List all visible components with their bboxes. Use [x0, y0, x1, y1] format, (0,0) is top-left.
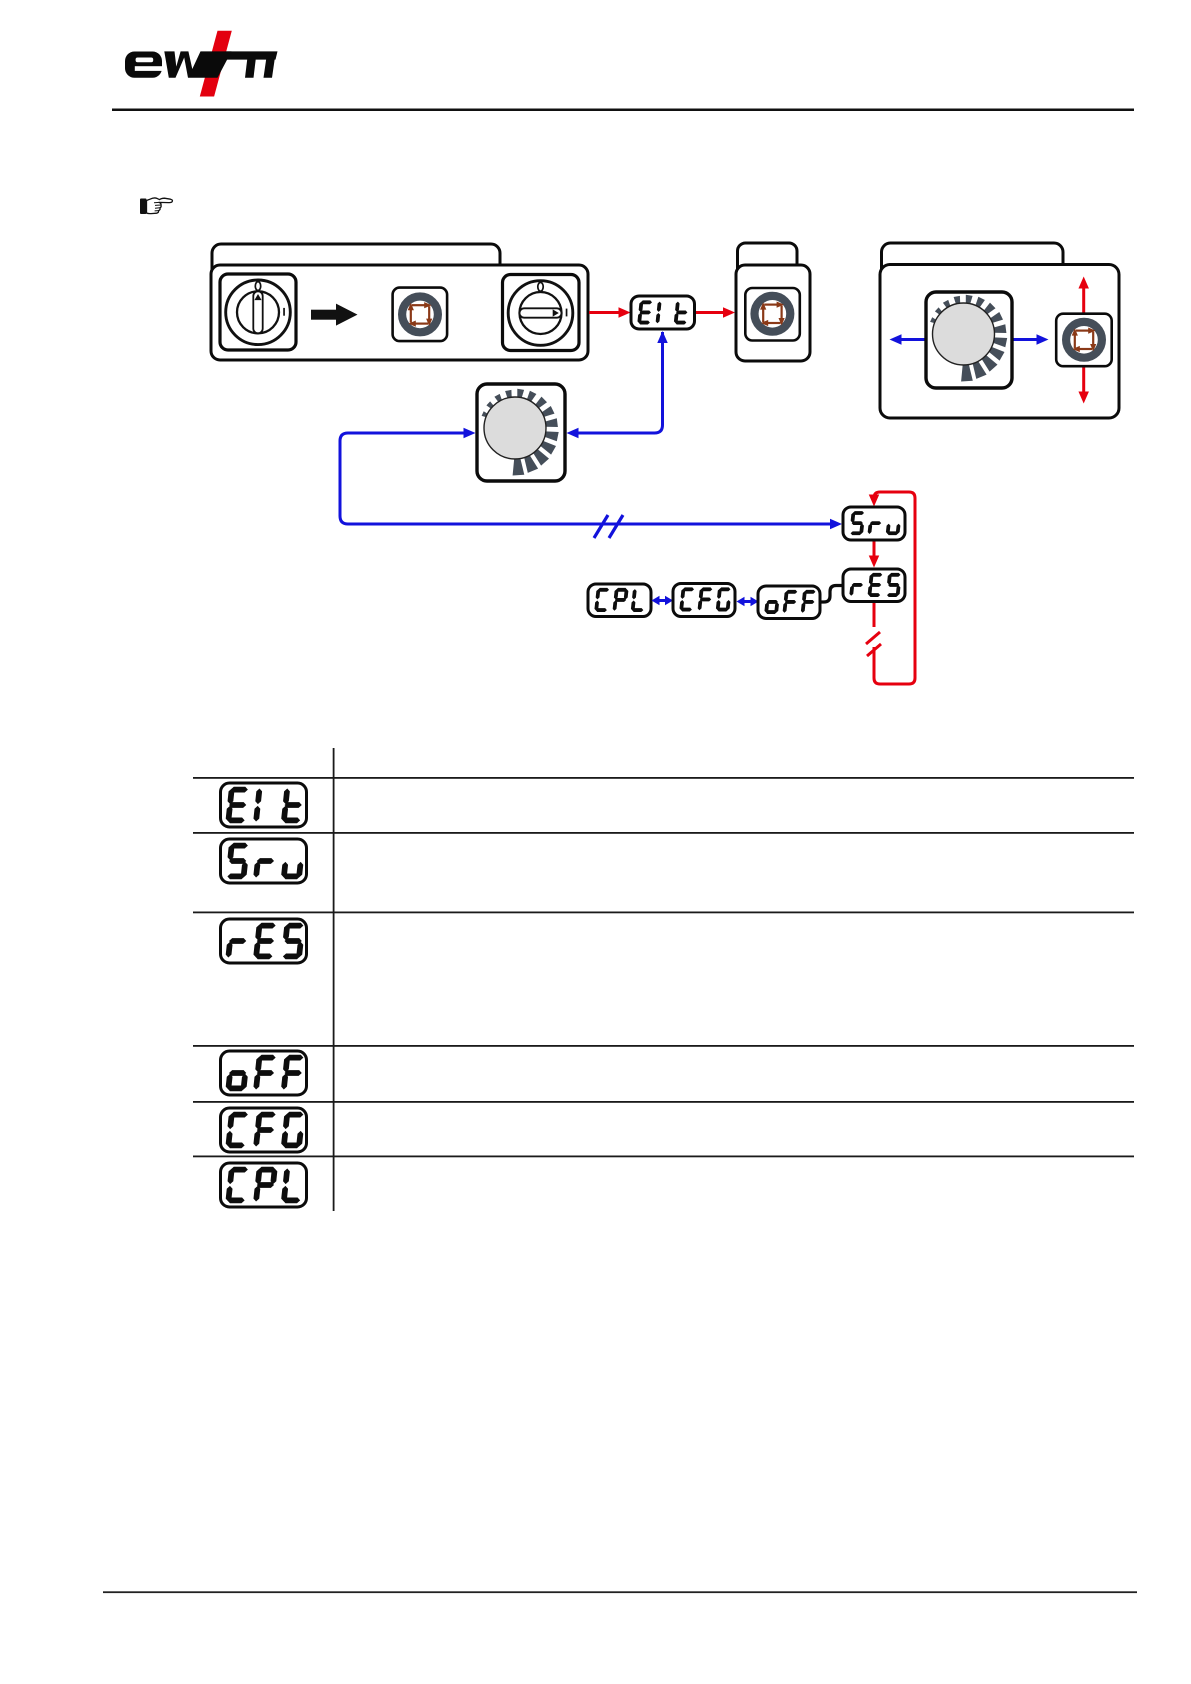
header rule	[112, 109, 1134, 112]
right panel front	[880, 265, 1119, 419]
blue break slashes	[594, 515, 623, 538]
red down arrow	[1082, 366, 1085, 394]
panel 1 back tab	[212, 244, 500, 294]
blue wire wheel to Srv	[340, 433, 836, 524]
wheel knob middle	[477, 384, 565, 481]
table display cfg	[221, 1108, 307, 1152]
small panel back tab	[738, 243, 798, 293]
cycle icon right panel	[1056, 314, 1112, 367]
knob switch horizontal (I position)	[503, 275, 580, 351]
cycle icon in panel 1	[393, 288, 448, 342]
table display cpl	[221, 1163, 307, 1207]
blue double arrow CPL-CFG	[655, 599, 669, 602]
blue double arrow CFG-oFF	[740, 600, 754, 603]
table display eit	[221, 783, 307, 827]
blue wire Eit to wheel	[576, 332, 663, 433]
wheel knob right panel	[926, 292, 1012, 388]
red wire Eit to small panel	[695, 311, 725, 314]
black arrow	[311, 310, 338, 320]
cycle icon small panel	[745, 288, 800, 341]
table rules	[193, 777, 1134, 779]
table display off	[221, 1051, 307, 1095]
red wire panel1 to Eit	[589, 311, 621, 314]
panel 1 front	[211, 265, 588, 360]
table display srv	[221, 839, 307, 883]
right panel back tab	[882, 243, 1064, 293]
black connector oFF to rES	[820, 586, 843, 603]
red arrow Srv to rES	[873, 541, 876, 561]
display Srv	[843, 507, 905, 540]
footer rule	[103, 1591, 1137, 1593]
hand pointer icon	[140, 198, 172, 214]
knob switch vertical (0 position)	[220, 274, 296, 350]
display oFF	[758, 586, 820, 619]
table display res	[221, 919, 307, 963]
display CPL	[588, 584, 651, 617]
blue right arrow	[1012, 338, 1040, 341]
display rES	[843, 569, 905, 602]
small panel front	[736, 265, 810, 361]
display CFG	[673, 584, 735, 617]
display Eit	[631, 296, 695, 329]
red loop	[874, 492, 915, 684]
blue left arrow	[898, 338, 926, 341]
red up arrow	[1082, 285, 1085, 314]
ewm logo	[125, 31, 278, 97]
red break slashes	[868, 627, 880, 647]
